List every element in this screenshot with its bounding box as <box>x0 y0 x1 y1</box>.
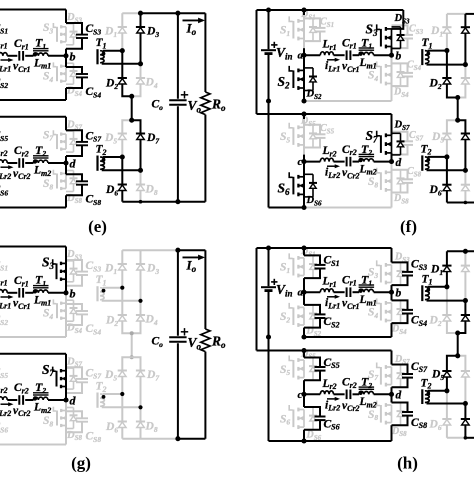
wire <box>353 54 360 56</box>
label C_S7 <box>86 130 102 143</box>
label v_Cr2 <box>342 400 360 413</box>
label S_3 <box>366 22 379 38</box>
label Co <box>152 336 164 349</box>
capacitor C_S7 <box>392 365 414 388</box>
inductor L_m1 transformer primary <box>33 286 49 294</box>
label D3 <box>146 26 159 39</box>
wire Vin rail lower <box>268 101 270 208</box>
label C_S1 (ghost) <box>320 17 334 29</box>
wire bottom rail (ghost) <box>122 438 178 440</box>
label C_S5 <box>324 357 340 370</box>
label C_r2 <box>342 377 357 390</box>
label i_Lr2 <box>325 167 340 180</box>
current arrow Io <box>183 18 206 24</box>
label C_S6 <box>324 418 340 431</box>
node bottom rail / D8 leg <box>464 201 468 205</box>
capacitor C_S3 (ghost) <box>392 25 414 48</box>
wire <box>391 387 393 402</box>
transistor S8 (ghost) <box>53 170 66 190</box>
label i_Lr1 <box>325 297 340 310</box>
wire (ghost) <box>65 400 67 445</box>
label D5 <box>431 131 444 144</box>
transistor S4 (ghost) <box>53 299 66 319</box>
resistor Ro rail <box>204 13 206 202</box>
wire <box>391 351 393 365</box>
node T1 bottom <box>463 62 468 67</box>
node a <box>298 287 307 299</box>
transformer T2 secondary <box>422 155 465 170</box>
label D_S4 (ghost) <box>66 86 82 98</box>
node c leg bottom <box>301 205 306 210</box>
diode D8 (ghost) <box>136 170 145 201</box>
wire bottom rail <box>122 201 205 203</box>
label S_8 (ghost) <box>368 176 378 189</box>
current arrow i_Lr1 <box>1 295 14 299</box>
diode D8 <box>461 404 470 438</box>
transistor S7 <box>377 131 405 155</box>
diode D6 <box>442 391 451 438</box>
current arrow i_Lr2 <box>327 397 340 401</box>
diode D1 branch (ghost) <box>118 250 127 288</box>
capacitor C_S7 (ghost) <box>66 367 88 393</box>
label i_Lr2 (cut) <box>0 405 11 418</box>
diode D6 <box>118 157 127 202</box>
wire bottom rail <box>178 438 206 440</box>
label D_S7 <box>394 120 410 132</box>
label Ro <box>211 334 226 350</box>
label D_S5 (ghost) <box>300 348 316 360</box>
node T1 top <box>444 48 449 53</box>
label v_Cr1 <box>13 298 31 311</box>
label S_6 (ghost) <box>280 413 290 426</box>
wire rectifier top rail <box>447 250 474 252</box>
label T_2 <box>361 375 372 390</box>
label Vin <box>276 45 293 61</box>
wire middle link <box>457 333 459 356</box>
wire <box>334 161 345 163</box>
plus sign <box>181 91 188 98</box>
wire <box>65 10 67 24</box>
inductor L_r2 (cut) <box>0 160 7 163</box>
label C_r1 <box>342 274 357 287</box>
wire outer left rail <box>256 248 258 351</box>
label T_2 <box>35 380 46 395</box>
label D_S2 (ghost) <box>306 326 322 338</box>
diode D7 <box>132 120 145 170</box>
label S_7 <box>366 128 379 144</box>
label Io <box>186 21 197 37</box>
wire <box>48 55 66 57</box>
label D2 <box>429 78 442 91</box>
wire (ghost) <box>303 114 305 162</box>
wire top of switch box 2 <box>0 116 66 118</box>
label v_Cr1 <box>342 298 360 311</box>
node bottom/Co <box>175 436 180 441</box>
label L_r2 (cut) <box>0 382 8 395</box>
label D1 (ghost) <box>104 263 117 276</box>
label C_S4 (ghost) <box>86 323 102 336</box>
wire upper bottom rail <box>304 440 392 442</box>
node Vin top <box>266 7 271 12</box>
label D6 (ghost) <box>105 421 118 434</box>
inductor L_r2 <box>320 391 333 394</box>
label D4 (ghost) <box>145 77 158 90</box>
diode D3 (ghost) <box>136 250 145 301</box>
plus sign <box>181 328 188 335</box>
wire middle link <box>131 96 133 120</box>
diode D_S8 (ghost) <box>66 171 78 192</box>
transistor S4 (ghost) <box>377 61 405 86</box>
current arrow i_Lr2 <box>327 164 340 168</box>
node T2 top <box>120 392 124 396</box>
capacitor C_S6 <box>304 407 326 430</box>
transistor S4 (ghost) <box>377 298 405 323</box>
label T2 <box>96 144 107 157</box>
svg-text:a: a <box>298 287 304 299</box>
diode D2 <box>442 287 457 333</box>
diode D4 <box>458 301 470 333</box>
diode D3 <box>461 14 470 65</box>
label D8 (ghost) <box>145 184 158 197</box>
label D2 <box>429 315 442 328</box>
transistor S7 (ghost) <box>377 363 405 388</box>
transistor S5 (ghost) <box>289 123 317 148</box>
svg-text:b: b <box>396 50 402 62</box>
label S_7 (ghost) <box>368 369 378 382</box>
wire <box>303 430 305 441</box>
svg-text:b: b <box>70 49 76 63</box>
label C_r1 <box>342 37 357 50</box>
wire <box>391 323 393 337</box>
wire (ghost) <box>303 10 305 55</box>
wire <box>353 161 360 163</box>
node middle bottom <box>130 355 134 359</box>
node T2 bottom <box>138 405 142 409</box>
wire <box>25 162 33 164</box>
capacitor C_S5 label (cut) <box>0 130 8 143</box>
wire upper bottom rail <box>304 336 392 338</box>
label D_S1 (ghost) <box>300 9 316 21</box>
wire top rail (ghost part) <box>447 13 466 15</box>
label L_r2 <box>322 378 337 391</box>
label S_3 <box>42 255 55 271</box>
capacitor C_r1 <box>19 288 23 298</box>
capacitor C_S4 bump <box>66 67 88 88</box>
transistor S1 (ghost) <box>289 253 317 278</box>
wire <box>65 195 67 207</box>
label S_8 (ghost) <box>43 178 53 191</box>
inductor L_r2 (cut) <box>0 397 7 400</box>
label Vin <box>276 282 293 298</box>
label v_Cr1 <box>13 61 31 74</box>
node T1 top <box>120 48 125 53</box>
capacitor C_S8 <box>392 403 414 426</box>
diode D4 (ghost) <box>132 301 145 334</box>
node a leg bottom <box>301 334 306 339</box>
capacitor C_S2 <box>304 305 326 328</box>
node Vin top <box>266 245 271 250</box>
wire bottom of switch box 1 <box>0 336 66 338</box>
label Vo <box>188 98 202 114</box>
label S_7 <box>42 362 55 378</box>
svg-text:d: d <box>70 394 77 408</box>
diode D8 <box>461 170 470 202</box>
wire (ghost) <box>391 162 393 208</box>
label T_1 <box>361 272 372 287</box>
node middle top <box>129 94 134 99</box>
label C_S7 (ghost) <box>86 367 102 380</box>
node top-rail/Co <box>175 11 180 16</box>
label S_4 (ghost) <box>368 70 378 83</box>
label C_S5 (ghost) <box>320 123 335 135</box>
transistor S8 (ghost) <box>377 168 405 193</box>
capacitor C_r2 <box>347 157 351 167</box>
wire top of switch box 1 <box>0 9 66 11</box>
svg-text:b: b <box>70 286 76 300</box>
wire top rail (ghost part) <box>122 12 140 14</box>
wire middle link <box>457 98 459 121</box>
capacitor C_S3 bump <box>66 23 88 49</box>
caption (e) <box>88 217 107 236</box>
label v_Cr2 <box>13 168 31 181</box>
wire <box>303 351 305 358</box>
diode D2 (ghost) <box>118 288 132 334</box>
label C_S3 (ghost) <box>86 260 102 273</box>
label T_1 <box>35 36 46 51</box>
label D_S4 (ghost) <box>66 323 82 335</box>
wire middle link <box>131 333 133 357</box>
label C_S1 <box>324 255 340 268</box>
svg-text:(f): (f) <box>400 217 417 236</box>
diode D5 <box>442 120 457 157</box>
wire <box>25 292 33 294</box>
label D6 <box>429 419 442 432</box>
caption (h) <box>397 454 418 473</box>
node T2 bottom <box>463 401 468 406</box>
wire <box>374 393 392 395</box>
wire <box>65 88 67 100</box>
svg-text:d: d <box>70 157 77 171</box>
wire <box>7 399 17 401</box>
inductor L_r1 (cut) <box>0 53 7 56</box>
capacitor C_S2 label (cut) <box>0 77 8 90</box>
label C_S4 (ghost) <box>407 60 422 72</box>
wire <box>303 380 305 407</box>
label L_m1 <box>33 294 51 307</box>
transistor S3 <box>377 24 405 48</box>
transistor S8 (ghost) <box>377 401 405 426</box>
node top of c leg <box>301 348 306 353</box>
label T2 <box>421 377 432 390</box>
diode D5 branch (ghost) <box>118 120 132 157</box>
diode D_S3 (ghost) <box>66 24 78 45</box>
transistor S6 (ghost) <box>289 405 317 430</box>
transistor S6 <box>289 172 317 197</box>
wire <box>48 162 66 164</box>
node T1 bottom <box>138 299 142 303</box>
capacitor C_S8 bump <box>66 174 88 195</box>
label T1 <box>422 37 433 50</box>
wire top rail <box>141 12 206 14</box>
wire (ghost) <box>391 55 393 101</box>
svg-text:c: c <box>298 156 303 168</box>
label L_r1 (cut) <box>0 274 8 287</box>
transformer T1 secondary <box>98 49 141 64</box>
capacitor C_S1 (ghost) <box>304 18 326 41</box>
wire lower top rail <box>257 350 392 352</box>
capacitor C_S4 (ghost) <box>66 304 88 325</box>
inductor L_m2 transformer primary <box>33 393 49 401</box>
node middle top <box>130 331 134 335</box>
label D_S4 (ghost) <box>391 324 407 336</box>
wire <box>303 55 305 101</box>
node T2 bottom <box>463 168 468 173</box>
label D_S4 (ghost) <box>393 87 409 99</box>
node a <box>298 50 307 62</box>
capacitor C_S5 <box>304 358 326 381</box>
node c <box>298 389 307 401</box>
wire bottom of switch box 2 <box>0 444 66 446</box>
label C_S3 <box>411 259 427 272</box>
wire top rail <box>178 249 206 251</box>
capacitor C_r2 <box>19 395 23 405</box>
label L_m2 <box>33 165 51 178</box>
capacitor C_S7 bump <box>66 130 88 156</box>
wire rectifier bottom rail <box>447 202 474 204</box>
wire <box>65 247 67 293</box>
node d <box>63 157 76 171</box>
transistor S3 (ghost) <box>377 260 405 285</box>
label D1 <box>430 264 443 277</box>
label D_S6 <box>306 195 322 207</box>
svg-text:d: d <box>396 390 402 402</box>
label T_2 <box>35 143 46 158</box>
wire <box>334 54 345 56</box>
wire bottom of switch box 1 <box>0 99 66 101</box>
label S_4 (ghost) <box>368 307 378 320</box>
svg-text:b: b <box>396 287 402 299</box>
node middle top <box>455 330 460 335</box>
voltage source Vin <box>261 248 278 337</box>
node middle bottom <box>129 118 134 123</box>
capacitor C_S6 label (cut) <box>0 184 8 197</box>
label C_S3 <box>86 23 102 36</box>
node b <box>63 286 75 300</box>
label T1 (ghost) <box>96 274 107 287</box>
wire <box>65 156 67 163</box>
label i_Lr1 (cut) <box>0 297 11 310</box>
label C_S7 <box>411 361 428 374</box>
node c <box>298 156 307 168</box>
inductor L_m2 transformer primary <box>358 154 374 162</box>
wire <box>353 393 360 395</box>
label i_Lr1 (cut) <box>0 60 11 73</box>
label D3 (ghost) <box>146 263 159 276</box>
label T1 <box>422 273 433 286</box>
label D6 <box>105 184 118 197</box>
diode D_S4 (ghost) <box>66 63 78 84</box>
capacitor C_S7 (ghost) <box>392 132 414 155</box>
label L_r2 (cut) <box>0 145 8 158</box>
diode D7 <box>458 120 470 170</box>
label L_m2 <box>33 402 51 415</box>
wire S3 drain corner <box>392 10 404 29</box>
resistor Ro rail <box>204 250 206 439</box>
capacitor C_S1 label (cut) <box>0 259 8 272</box>
label T1 <box>96 37 107 50</box>
label D_S3 (ghost) <box>66 249 82 261</box>
label L_m1 <box>359 57 377 70</box>
diode D5 <box>442 356 457 391</box>
node bottom rail / D8 leg <box>464 436 468 440</box>
label Io <box>186 258 197 274</box>
current arrow i_Lr2 <box>1 402 14 406</box>
node top-rail/D3 <box>138 11 143 16</box>
label C_r2 <box>14 145 29 158</box>
capacitor Co <box>169 100 186 104</box>
wire S7 drain <box>391 114 393 135</box>
label S_4 (ghost) <box>43 71 53 84</box>
capacitor C_r1 <box>347 287 351 297</box>
node Vin / upper bottom rail <box>266 334 271 339</box>
label Vo <box>188 335 202 351</box>
label C_r1 <box>14 38 29 51</box>
label D_S3 <box>394 13 410 25</box>
inductor L_m2 transformer primary <box>33 156 49 164</box>
wire lower bottom rail <box>269 440 305 442</box>
label T_2 <box>361 142 372 157</box>
wire <box>374 291 392 293</box>
label D1 <box>430 25 443 38</box>
voltage source Vin <box>261 10 278 101</box>
svg-text:d: d <box>396 157 402 169</box>
wire <box>391 425 393 441</box>
label T_1 <box>35 273 46 288</box>
label C_S8 (ghost) <box>86 431 102 444</box>
transistor S5 (ghost) <box>289 356 317 381</box>
diode D7 (ghost) <box>132 357 145 407</box>
label C_r2 <box>14 382 29 395</box>
wire <box>391 285 393 300</box>
wire <box>303 162 305 208</box>
node a leg bottom <box>301 98 306 103</box>
inductor L_r1 <box>320 52 333 55</box>
wire bottom rail (ghost part) <box>447 437 466 439</box>
node d <box>389 390 402 402</box>
wire Vin rail lower <box>268 337 270 441</box>
wire lower bottom rail <box>269 207 305 209</box>
wire <box>65 163 67 174</box>
capacitor C_S8 (ghost) <box>392 170 414 193</box>
transformer T2 secondary <box>98 156 141 171</box>
transistor S8 (ghost) <box>53 407 66 427</box>
label C_r1 <box>14 275 29 288</box>
diode D1 <box>442 14 451 51</box>
wire c to Lr <box>304 161 320 163</box>
diode D2 <box>442 51 457 98</box>
label C_S4 <box>411 315 427 328</box>
svg-text:(e): (e) <box>88 217 107 236</box>
label S_3 (ghost) <box>368 267 378 280</box>
diode D_S7 (ghost) <box>66 368 78 389</box>
label D_S3 (ghost) <box>66 12 82 24</box>
label D_S8 (ghost) <box>391 426 407 438</box>
wire <box>391 153 393 162</box>
node T1 top <box>120 286 124 290</box>
wire <box>303 278 305 305</box>
node middle top <box>455 95 460 100</box>
wire <box>303 114 305 162</box>
